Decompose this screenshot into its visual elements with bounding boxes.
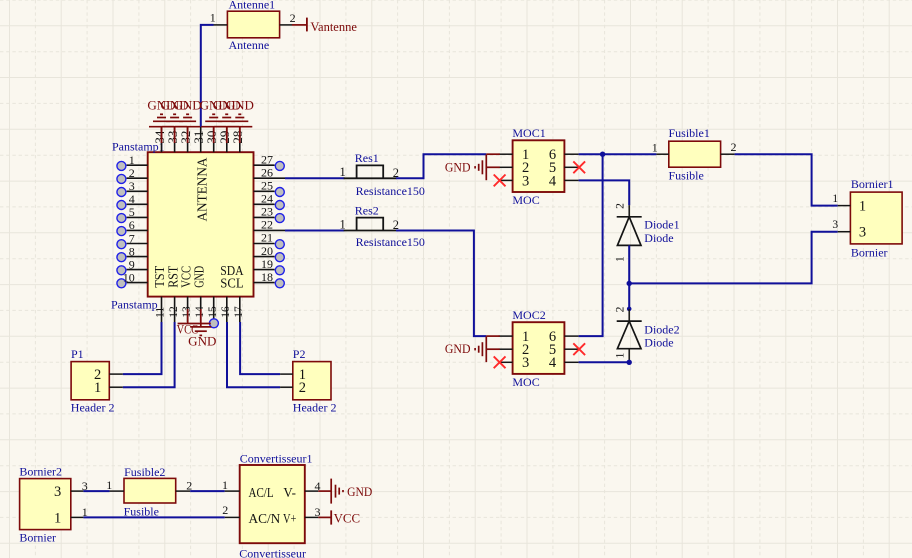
no-ERC marker MOC2 pin 3: [494, 356, 506, 368]
no-ERC marker MOC2 pin 5: [573, 343, 585, 355]
pin 31 of Panstamp1: [191, 127, 206, 152]
svg-text:27: 27: [261, 152, 273, 166]
component Antenne1: [227, 0, 279, 52]
opto-coupler MOC1: [512, 126, 564, 207]
pin 4 of MOC1: [549, 173, 579, 189]
wire MOC1 pin4 to Diode1: [579, 180, 630, 205]
svg-text:Resistance150: Resistance150: [356, 235, 425, 249]
power port VCC (pin 13): [177, 309, 211, 336]
wire antenna net: [201, 25, 214, 127]
pin 10 of Panstamp1: [117, 270, 148, 287]
pin name RST: [165, 265, 180, 288]
wire MOC2 pin4 to Diode2: [579, 361, 630, 363]
diode Diode2: [617, 321, 680, 349]
svg-text:Fusible: Fusible: [124, 505, 159, 519]
pin 33 of Panstamp1: [165, 127, 180, 152]
svg-text:18: 18: [261, 270, 273, 284]
pin 5 of MOC1: [549, 160, 579, 176]
junction Diode1 anode node: [627, 281, 632, 286]
ground (pin 14): [188, 309, 216, 348]
pin 1 of P2: [280, 367, 306, 383]
svg-text:Antenne: Antenne: [229, 38, 270, 52]
pin 15 of Panstamp1: [207, 297, 219, 322]
svg-text:6: 6: [129, 218, 135, 232]
pin 1 of Res1: [339, 165, 345, 179]
svg-text:1: 1: [339, 165, 345, 179]
svg-text:7: 7: [129, 231, 135, 245]
svg-text:Bornier1: Bornier1: [851, 177, 894, 191]
pin 5 of MOC2: [549, 342, 579, 358]
terminal Bornier2: [19, 464, 70, 544]
pin 1 of MOC1: [499, 147, 530, 163]
net label Vantenne: [292, 18, 357, 34]
svg-text:8: 8: [129, 244, 135, 258]
svg-text:GND: GND: [347, 484, 372, 499]
terminal Bornier1: [850, 177, 902, 259]
svg-text:V+: V+: [283, 512, 296, 527]
svg-text:12: 12: [168, 306, 180, 318]
svg-text:4: 4: [129, 192, 135, 206]
svg-text:1: 1: [94, 380, 101, 396]
wire node down to Diode2: [628, 283, 630, 309]
pin 2 of P2: [280, 380, 306, 396]
svg-text:P1: P1: [71, 347, 84, 361]
pin 28 of Panstamp1: [230, 127, 245, 152]
svg-text:1: 1: [129, 153, 135, 167]
svg-text:Fusible: Fusible: [669, 169, 704, 183]
diode Diode1: [617, 217, 680, 246]
pin 2 of MOC1: [499, 160, 530, 176]
svg-text:Header 2: Header 2: [71, 400, 115, 414]
svg-text:Res2: Res2: [355, 203, 379, 217]
svg-text:Convertisseur: Convertisseur: [239, 546, 306, 558]
pin 13 of Panstamp1: [181, 297, 193, 322]
svg-text:4: 4: [549, 355, 557, 371]
resistor Res1: [355, 151, 425, 198]
svg-text:2: 2: [615, 306, 627, 312]
svg-text:2: 2: [290, 11, 296, 25]
svg-text:21: 21: [261, 231, 273, 245]
svg-text:GND: GND: [226, 98, 254, 113]
wire Bornier2 pin3 to Fusible2: [83, 490, 109, 492]
svg-text:MOC2: MOC2: [512, 308, 545, 322]
svg-text:2: 2: [222, 503, 228, 517]
svg-text:1: 1: [339, 217, 345, 231]
svg-text:Res1: Res1: [355, 151, 379, 165]
junction Diode2 anode node: [627, 360, 632, 365]
pin 18 of Panstamp1: [254, 270, 285, 288]
pin 34 of Panstamp1: [152, 127, 167, 152]
pin 22 of Panstamp1: [254, 218, 286, 232]
wire pin22 to Res2 pin1: [285, 230, 345, 232]
pin 24 of Panstamp1: [254, 192, 285, 210]
svg-text:GND: GND: [188, 333, 216, 348]
pin 1 of Diode1: [615, 245, 630, 262]
svg-text:19: 19: [261, 257, 273, 271]
pin 4 of Convertisseur1: [305, 479, 321, 493]
pin 1 of Convertisseur1: [222, 478, 240, 492]
junction MOC1 pin6 node: [600, 152, 605, 157]
svg-text:3: 3: [832, 219, 838, 231]
svg-text:1: 1: [615, 352, 627, 358]
svg-text:9: 9: [129, 257, 135, 271]
svg-text:Diode: Diode: [644, 336, 673, 350]
svg-text:20: 20: [261, 244, 273, 258]
pin name SDA: [220, 263, 244, 278]
pin 2 of Diode2: [615, 306, 630, 321]
svg-text:15: 15: [207, 306, 219, 318]
wire Res2 pin2 to MOC2 pin1: [396, 231, 486, 337]
pin 12 of Panstamp1: [168, 297, 180, 322]
pin 1 of P1: [94, 380, 123, 396]
pin 1 of Bornier2: [54, 505, 88, 526]
svg-text:Diode2: Diode2: [644, 322, 679, 336]
pin 20 of Panstamp1: [254, 244, 285, 262]
wire pin17 to P2.1: [240, 322, 280, 374]
pin 2 of Panstamp1: [117, 166, 148, 183]
ground (pin 34): [147, 98, 175, 143]
wire MOC1 pin6 to Fusible1 pin1: [579, 153, 657, 155]
svg-text:17: 17: [233, 306, 245, 318]
svg-text:ANTENNA: ANTENNA: [196, 157, 211, 222]
svg-text:26: 26: [261, 165, 273, 179]
pin 9 of Panstamp1: [117, 257, 148, 274]
converter Convertisseur1: [239, 451, 312, 558]
pin 2 of Fusible2: [176, 478, 193, 492]
svg-text:Antenne1: Antenne1: [229, 0, 276, 12]
svg-text:MOC: MOC: [512, 375, 539, 389]
wire Res1 pin2 to MOC1 pin1: [396, 154, 486, 178]
pin name V-: [283, 486, 296, 501]
svg-text:GND: GND: [174, 98, 202, 113]
pin 6 of MOC2: [549, 329, 579, 345]
svg-text:1: 1: [54, 510, 61, 526]
svg-text:MOC1: MOC1: [512, 126, 545, 140]
svg-text:1: 1: [222, 478, 228, 492]
svg-text:3: 3: [859, 225, 866, 241]
pin 5 of Panstamp1: [117, 205, 148, 222]
junction Diode2 cathode tap: [627, 307, 632, 312]
pin 19 of Panstamp1: [254, 257, 285, 275]
pin name VCC: [178, 266, 193, 288]
pin 2 of Convertisseur1: [222, 503, 239, 517]
svg-text:5: 5: [129, 205, 135, 219]
pin 8 of Panstamp1: [117, 244, 148, 261]
svg-text:3: 3: [54, 484, 61, 500]
pin 3 of MOC2: [499, 355, 530, 371]
pin 2 of Diode1: [615, 203, 630, 217]
pin 1 of Bornier1: [832, 193, 866, 215]
svg-text:22: 22: [261, 218, 273, 232]
pin 3 of Convertisseur1: [305, 505, 321, 519]
header P1: [71, 347, 115, 414]
pin 1 of Res2: [339, 217, 345, 231]
pin 3 of MOC1: [499, 173, 530, 189]
no-ERC marker MOC1 pin 3: [494, 175, 506, 187]
pin 21 of Panstamp1: [254, 231, 285, 249]
svg-text:1: 1: [615, 256, 627, 262]
svg-text:11: 11: [155, 306, 167, 317]
svg-text:16: 16: [220, 306, 232, 318]
svg-text:P2: P2: [293, 347, 306, 361]
pin 1 of Panstamp1: [117, 153, 148, 170]
wire pin12 to P1.1: [123, 322, 175, 387]
pin 11 of Panstamp1: [155, 297, 167, 322]
pin name AC/L: [249, 486, 274, 501]
svg-text:2: 2: [731, 140, 737, 154]
pin 2 of Res1: [393, 166, 399, 180]
pin name TST: [152, 265, 167, 288]
pin name ANTENNA: [196, 157, 211, 222]
svg-text:Convertisseur1: Convertisseur1: [240, 451, 313, 465]
svg-text:1: 1: [652, 140, 658, 154]
pin 3 of Bornier1: [832, 219, 866, 241]
wire Fusible1 pin2 to Bornier1 pin1: [735, 154, 838, 205]
ground (pin 29): [213, 98, 241, 143]
svg-text:24: 24: [261, 192, 273, 206]
pin 23 of Panstamp1: [254, 205, 285, 223]
wire Bornier2 pin1 to Convertisseur pin2: [83, 516, 224, 518]
pin 6 of Panstamp1: [117, 218, 148, 235]
svg-text:25: 25: [261, 179, 273, 193]
svg-text:1: 1: [859, 199, 866, 215]
pin 15 end marker: [209, 319, 218, 328]
ground (pin 32): [174, 98, 202, 143]
svg-text:GND: GND: [445, 159, 471, 174]
pin 30 of Panstamp1: [204, 127, 219, 152]
pin 1 of MOC2: [499, 329, 530, 345]
fuse Fusible1: [669, 126, 721, 183]
pin name SCL: [220, 275, 243, 290]
wire Diode1 anode down: [628, 245, 630, 283]
pin 27 of Panstamp1: [254, 152, 285, 170]
pin 4 of MOC2: [549, 355, 579, 371]
pin 14 of Panstamp1: [194, 297, 206, 322]
svg-text:Diode1: Diode1: [644, 218, 679, 232]
svg-text:1: 1: [106, 478, 112, 492]
pin 4 of Panstamp1: [117, 192, 148, 209]
svg-text:Fusible2: Fusible2: [124, 465, 165, 479]
svg-text:13: 13: [181, 306, 193, 318]
ground at MOC2 pin 2: [445, 336, 500, 362]
svg-text:AC/N: AC/N: [249, 512, 281, 527]
svg-text:Vantenne: Vantenne: [310, 20, 357, 34]
no-ERC marker MOC1 pin 5: [573, 161, 585, 173]
wire junction down to MOC2 pin6: [579, 154, 603, 336]
svg-text:GND: GND: [445, 341, 471, 356]
pin 3 of Bornier2: [54, 479, 88, 500]
svg-text:3: 3: [129, 179, 135, 193]
svg-text:4: 4: [549, 173, 557, 189]
svg-text:MOC: MOC: [512, 193, 539, 207]
pin 3 of Panstamp1: [117, 179, 148, 196]
pin 2 of Antenne1: [280, 11, 296, 25]
wire node to Bornier1 pin3: [629, 232, 838, 284]
pin 17 of Panstamp1: [233, 297, 245, 322]
svg-text:SCL: SCL: [220, 275, 243, 290]
pin 1 of Diode2: [615, 349, 630, 363]
svg-text:Resistance150: Resistance150: [356, 184, 425, 198]
wire pin11 to P1.2: [123, 322, 162, 374]
svg-text:Bornier: Bornier: [19, 531, 56, 545]
svg-text:10: 10: [123, 270, 135, 284]
svg-text:V-: V-: [283, 486, 296, 501]
opto-coupler MOC2: [512, 308, 564, 389]
svg-text:GND: GND: [192, 266, 207, 288]
pin name GND: [192, 266, 207, 288]
svg-text:1: 1: [210, 11, 216, 25]
pin 1 of Antenne1: [210, 11, 228, 25]
svg-text:2: 2: [129, 166, 135, 180]
svg-text:1: 1: [832, 193, 838, 205]
pin 7 of Panstamp1: [117, 231, 148, 248]
pin 1 of Fusible1: [652, 140, 669, 154]
svg-text:Diode: Diode: [644, 231, 673, 245]
ground (pin 33): [161, 98, 189, 143]
pin 2 of Fusible1: [721, 140, 737, 154]
pin 2 of Res2: [393, 218, 399, 232]
svg-text:Bornier2: Bornier2: [19, 464, 62, 478]
svg-text:Header 2: Header 2: [293, 400, 337, 414]
ground (pin 28): [226, 98, 254, 143]
pin 25 of Panstamp1: [254, 179, 285, 197]
svg-text:28: 28: [230, 131, 245, 144]
svg-text:23: 23: [261, 205, 273, 219]
wire pin26 to Res1 pin1: [285, 177, 345, 179]
ground (pin 30): [200, 98, 228, 143]
resistor Res2: [355, 203, 425, 249]
ground at Convertisseur1 pin 4: [318, 479, 372, 504]
svg-text:3: 3: [522, 355, 529, 371]
svg-text:Bornier: Bornier: [851, 246, 888, 260]
svg-text:VCC: VCC: [334, 510, 361, 525]
pin name AC/N: [249, 512, 281, 527]
resistor Res2 lead line: [344, 230, 397, 232]
header P2: [293, 347, 337, 415]
pin 2 of P1: [94, 367, 123, 383]
pin 6 of MOC1: [549, 147, 579, 163]
ground at MOC1 pin 2: [445, 154, 500, 180]
svg-text:3: 3: [522, 173, 529, 189]
pin 29 of Panstamp1: [217, 127, 232, 152]
IC Panstamp1: [111, 140, 254, 312]
svg-text:14: 14: [194, 306, 206, 318]
pin 32 of Panstamp1: [178, 127, 193, 152]
svg-text:2: 2: [299, 380, 306, 396]
pin 2 of MOC2: [499, 342, 530, 358]
svg-text:Fusible1: Fusible1: [669, 126, 710, 140]
svg-text:2: 2: [615, 203, 627, 209]
svg-text:AC/L: AC/L: [249, 486, 274, 501]
svg-text:Panstamp: Panstamp: [111, 298, 158, 312]
pin 1 of Fusible2: [106, 478, 124, 492]
wire pin16 to P2.2: [227, 322, 280, 387]
pin 16 of Panstamp1: [220, 297, 232, 322]
fuse Fusible2: [124, 465, 176, 519]
resistor Res1 lead line: [344, 177, 397, 179]
power port VCC at Convertisseur1 pin 3: [318, 510, 360, 525]
pin name V+: [283, 512, 296, 527]
wire Fusible2 pin2 to Convertisseur pin1: [190, 490, 225, 492]
pin 26 of Panstamp1: [254, 165, 286, 179]
